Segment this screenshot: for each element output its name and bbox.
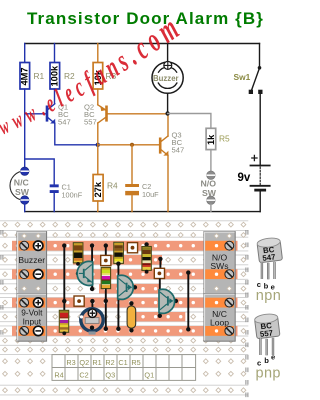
wire: junction to R5 top: [168, 114, 211, 129]
label C2 10uF: [142, 182, 159, 199]
copper strip 1: [12, 241, 238, 251]
transistor package BC547: [256, 237, 283, 304]
label 9v: [238, 172, 251, 184]
wire: Q3 emitter down to 0V: [167, 155, 169, 211]
wire: R5 bottom to N/O SW: [210, 150, 212, 172]
copper strip 4: [12, 326, 238, 336]
resistor R-b body: [101, 267, 110, 331]
resistor R-e body: [59, 310, 68, 335]
node: buzzer / Q3 collector / Q2 base / R5 junction: [165, 111, 169, 115]
wire link strip2 to strip4: [186, 270, 190, 331]
wire: Q1 base wire: [25, 113, 46, 115]
transistor T2: [158, 279, 178, 318]
transistor package BC557: [254, 313, 281, 382]
pin legs BC557: [259, 338, 261, 355]
buzzer: [152, 44, 183, 114]
transistor Q1 BC547 npn: [47, 104, 55, 123]
resistor R1 4M7: [20, 63, 30, 90]
resistor R3 10k: [93, 63, 103, 90]
transistor T3: [116, 262, 137, 331]
wire: Q1 emitter down and across to Q3 base node: [55, 123, 98, 145]
component location table: [52, 355, 196, 381]
terminal block N/O SWs: [204, 232, 235, 294]
copper strip segment A: [73, 255, 162, 265]
transistor T1: [76, 243, 95, 291]
switch Sw1: [249, 44, 263, 165]
resistor R-a body: [73, 243, 83, 266]
wire: R1 bottom to Q1 base node and N/C SW: [24, 89, 26, 167]
label Q1 BC 547: [58, 103, 71, 127]
BOARD_END: [254, 237, 282, 382]
wire: Q2 collector down to junction: [97, 123, 99, 145]
link strip1 to pad box A: [101, 243, 111, 265]
copper strip 2: [12, 269, 238, 279]
wire: R1 top lead from +V: [24, 44, 26, 63]
wire: top +V rail: [25, 43, 260, 45]
label Q3 BC 547: [172, 131, 185, 155]
strip holes: [16, 244, 233, 333]
wire: junction across to Q3 base: [98, 144, 160, 146]
label R5: [219, 134, 230, 144]
wire: bottom 0V rail: [25, 211, 260, 213]
resistor R-c body: [114, 242, 124, 263]
terminal block Buzzer: [17, 232, 47, 294]
node: Q2 collector / R4 / Q1 emitter junction: [96, 143, 100, 147]
copper strip segment C: [128, 312, 185, 321]
board edge ticks: [1, 230, 248, 397]
capacitor C2 electrolytic: [127, 301, 136, 332]
transistor Q3 BC547 npn: [160, 136, 168, 155]
capacitor C1 100nF: [50, 184, 59, 211]
terminal block 9-Volt Input: [17, 294, 47, 342]
wire: Q3 collector up to buzzer node: [167, 114, 169, 137]
switch N/C SW terminals and arc: [10, 167, 29, 212]
SCHEMATIC_END: [0, 221, 248, 397]
wire: R4 bottom to 0V: [97, 201, 99, 212]
label R4: [107, 181, 118, 191]
label Q2 BC 557: [84, 103, 97, 127]
title: [0, 9, 291, 29]
board grid lines: [0, 221, 248, 395]
wire: R3 bottom to Q2 emitter: [97, 89, 99, 105]
label R1: [34, 71, 45, 81]
pad box strip1: [127, 243, 137, 253]
label Sw1: [234, 72, 251, 82]
link rowA to pad box T2: [154, 257, 164, 279]
capacitor C2 10uF: [125, 145, 139, 212]
hole rows: [3, 222, 246, 392]
battery 9v: [251, 155, 270, 211]
terminal block N/C Loop: [204, 294, 235, 342]
label R2: [64, 71, 75, 81]
pin legs BC547: [261, 262, 263, 279]
wire: R4 top lead: [97, 145, 99, 175]
wire: R2 bottom to Q1 collector: [54, 89, 56, 103]
label N/O SW: [201, 179, 217, 198]
transistor Q2 BC557 pnp: [98, 105, 168, 123]
resistor R5 1k: [206, 128, 216, 149]
resistor R4 27k: [93, 175, 103, 202]
copper strip 3: [12, 298, 238, 308]
wire: R3 top lead from +V: [97, 44, 99, 63]
resistor R-d body: [142, 242, 151, 273]
pad box strip3 left: [74, 296, 84, 306]
wire: R2 top lead from +V: [54, 44, 56, 63]
label R3: [106, 71, 117, 81]
label C1 100nF: [62, 183, 83, 200]
wire: branch to C1 top: [25, 159, 55, 184]
wire link strip1 to strip3: [62, 243, 66, 310]
node: C2 top junction: [130, 143, 134, 147]
resistor R2 100k: [50, 63, 60, 90]
piezo buzzer disc: [80, 299, 103, 335]
label N/C SW: [14, 178, 30, 197]
switch N/O SW terminals: [207, 171, 215, 212]
copper strip segment B: [99, 284, 161, 294]
